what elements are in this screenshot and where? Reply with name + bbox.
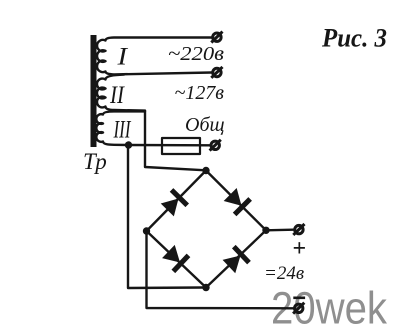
node bridge left bbox=[143, 227, 150, 234]
diode VD1 upper-left bbox=[159, 188, 189, 218]
terminal ~220в bbox=[211, 32, 222, 43]
winding I bbox=[97, 38, 212, 75]
svg-text:=24в: =24в bbox=[264, 263, 304, 284]
svg-text:~220в: ~220в bbox=[168, 43, 224, 65]
junction dots bbox=[125, 141, 270, 291]
svg-text:+: + bbox=[293, 236, 307, 262]
svg-text:III: III bbox=[113, 117, 132, 144]
node bridge right bbox=[262, 227, 269, 234]
diode VD2 upper-right bbox=[222, 187, 252, 217]
terminal Общ bbox=[210, 140, 221, 151]
node winding III bottom junction bbox=[125, 141, 132, 148]
node bridge bottom bbox=[202, 284, 209, 291]
terminal minus output bbox=[293, 303, 304, 314]
diode VD4 lower-right bbox=[221, 245, 251, 275]
label minus bbox=[293, 296, 305, 299]
wire winding III bottom to bridge bottom bbox=[128, 145, 203, 288]
fuse F1 bbox=[162, 138, 200, 154]
wire bridge right node to plus terminal bbox=[266, 228, 293, 231]
terminal plus output bbox=[293, 224, 304, 235]
wire winding II/III junction to bridge top bbox=[145, 111, 204, 170]
node bridge top bbox=[202, 167, 209, 174]
winding III bbox=[96, 111, 145, 145]
bridge rectifier diamond bbox=[147, 171, 267, 288]
svg-text:Общ: Общ bbox=[185, 114, 225, 136]
svg-text:II: II bbox=[109, 82, 125, 109]
svg-text:~127в: ~127в bbox=[175, 82, 225, 104]
wire bridge left node to minus terminal bbox=[147, 231, 294, 308]
svg-text:I: I bbox=[116, 44, 129, 71]
terminal ~127в bbox=[211, 67, 222, 78]
svg-text:Рис. 3: Рис. 3 bbox=[321, 24, 387, 53]
svg-text:Тр: Тр bbox=[83, 149, 107, 174]
wire fuse (Общ) bbox=[129, 144, 211, 147]
transformer core bbox=[91, 35, 97, 147]
diode VD3 lower-left bbox=[161, 244, 191, 274]
winding II bbox=[97, 75, 145, 111]
